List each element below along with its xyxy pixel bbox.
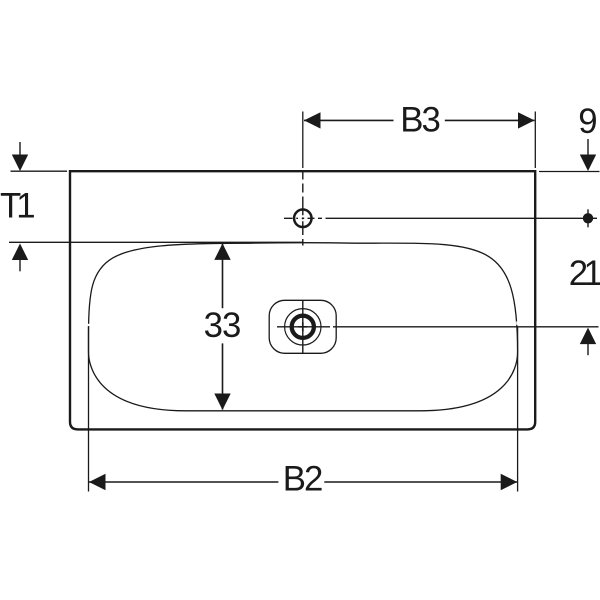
drain rounded square	[269, 300, 336, 353]
svg-text:B2: B2	[283, 460, 322, 499]
T1 top extension line	[11, 170, 68, 172]
faucet hole horizontal centerline to dimension dot	[284, 217, 583, 219]
T1 down arrow	[12, 155, 28, 172]
B3 dimension line	[304, 119, 535, 121]
B2 extension line right	[517, 327, 519, 492]
washbasin outer rim outline	[70, 171, 535, 429]
dot right tick	[593, 217, 597, 219]
svg-text:B3: B3	[400, 101, 439, 140]
T1 bottom extension line (basin top tangent)	[9, 241, 303, 243]
basin bowl outline	[89, 243, 518, 411]
9 down arrow	[580, 155, 596, 172]
faucet hole circle	[294, 210, 312, 228]
gap between bowl outline and B2 extension line, right	[516, 321, 519, 324]
drain vertical crosshair	[302, 300, 304, 353]
B2 right arrow	[501, 474, 518, 490]
33 down arrow	[214, 394, 230, 411]
svg-text:T1: T1	[0, 186, 34, 225]
dimension terminator dot at tap hole line	[583, 213, 593, 223]
21 arrow shaft	[587, 343, 589, 355]
drain horizontal crosshair left	[277, 326, 330, 328]
drain reference line to right edge	[333, 326, 599, 328]
33 dimension line	[222, 244, 224, 410]
9 dimension top line (right of rim)	[539, 171, 600, 173]
svg-text:21: 21	[569, 254, 600, 293]
T1 up arrow shaft	[19, 259, 21, 271]
B2 left arrow	[89, 474, 106, 490]
9 arrow shaft	[587, 139, 589, 155]
B2 dimension line	[89, 481, 517, 483]
B3 right arrow	[518, 112, 535, 128]
svg-text:9: 9	[578, 102, 597, 141]
drain inner thick circle	[292, 316, 314, 338]
33 up arrow	[214, 243, 230, 260]
svg-text:33: 33	[204, 306, 241, 345]
B3 extension line left (tap centerline up)	[302, 112, 304, 169]
drain outer thin circle	[285, 309, 321, 345]
T1 down arrow shaft	[19, 142, 21, 155]
B2 extension line left	[88, 326, 90, 491]
B3 extension line right	[534, 112, 536, 169]
faucet hole vertical centerline (dashed)	[302, 172, 304, 246]
T1 up arrow	[12, 244, 28, 261]
gap between bowl outline and B2 extension line, left	[87, 324, 90, 326]
21 up arrow (drain line, right)	[580, 328, 596, 345]
drain center cross	[298, 322, 307, 331]
dot vertical tick	[587, 209, 589, 227]
B3 left arrow	[304, 112, 321, 128]
